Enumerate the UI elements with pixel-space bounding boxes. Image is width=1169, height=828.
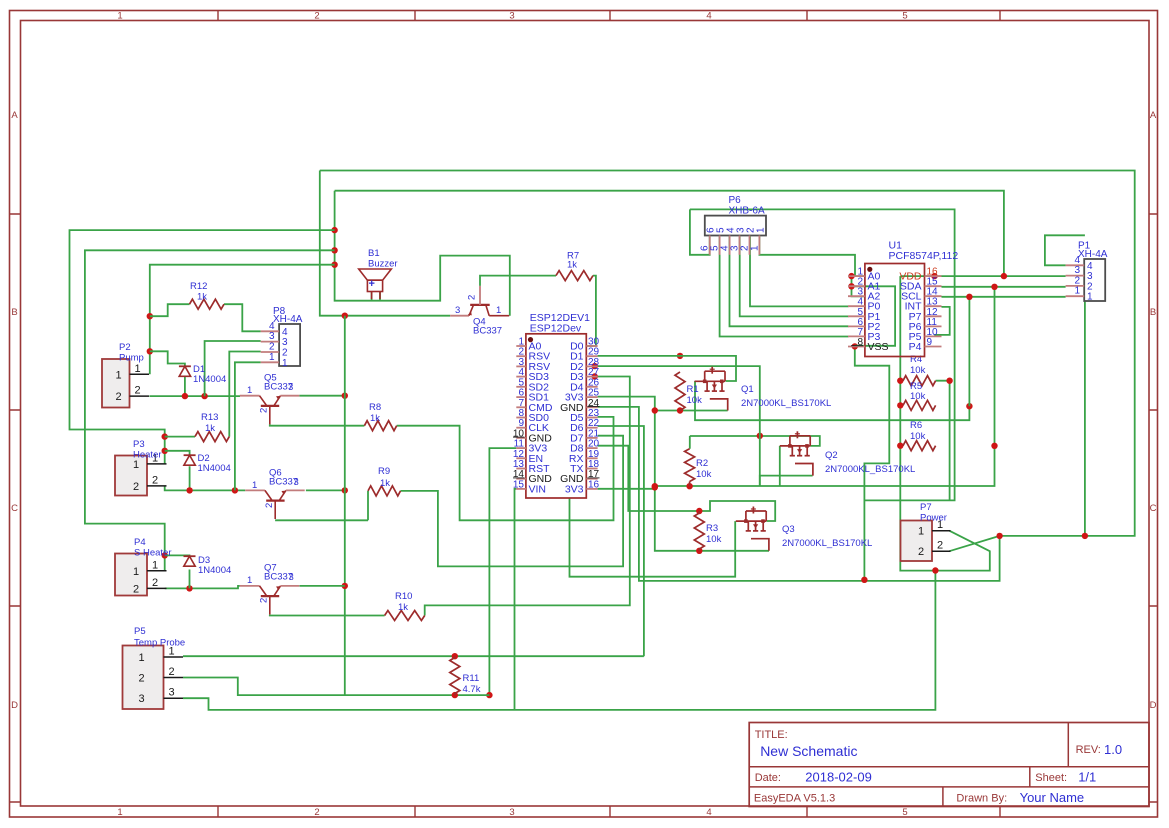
svg-text:10k: 10k bbox=[696, 469, 712, 480]
wire ESP pin29 D1 line bbox=[598, 356, 736, 381]
svg-text:5: 5 bbox=[902, 807, 907, 818]
svg-text:10k: 10k bbox=[687, 395, 703, 406]
svg-text:Your Name: Your Name bbox=[1020, 790, 1085, 805]
svg-text:Date:: Date: bbox=[755, 772, 781, 784]
svg-text:4: 4 bbox=[706, 807, 711, 818]
IC U1 PCF8574P,112 bbox=[848, 240, 958, 357]
svg-text:1N4004: 1N4004 bbox=[193, 374, 226, 385]
svg-text:Power: Power bbox=[920, 513, 947, 524]
svg-text:TITLE:: TITLE: bbox=[755, 729, 788, 741]
wire R12 net bbox=[150, 304, 261, 331]
svg-text:1: 1 bbox=[749, 245, 760, 251]
svg-text:Q1: Q1 bbox=[741, 384, 754, 395]
title block bbox=[749, 723, 1149, 807]
buzzer B1 bbox=[359, 248, 398, 299]
transistor Q7 BC337 bbox=[240, 563, 299, 615]
resistor R7 1k bbox=[556, 251, 593, 281]
svg-text:BC337: BC337 bbox=[264, 572, 293, 583]
svg-text:R11: R11 bbox=[463, 673, 480, 684]
transistor Q6 BC337 bbox=[245, 468, 305, 520]
svg-text:Drawn By:: Drawn By: bbox=[956, 793, 1007, 805]
svg-text:A: A bbox=[1150, 110, 1157, 121]
svg-text:P4: P4 bbox=[134, 537, 146, 548]
svg-text:2: 2 bbox=[937, 540, 943, 552]
svg-text:Q2: Q2 bbox=[825, 450, 838, 461]
svg-text:1N4004: 1N4004 bbox=[198, 565, 231, 576]
svg-text:2: 2 bbox=[138, 673, 144, 685]
wire D2 cathode hook bbox=[165, 451, 190, 491]
IC ESP12DEV1 ESP12Dev bbox=[513, 312, 600, 498]
svg-text:3: 3 bbox=[509, 11, 514, 22]
wire Q5 collector line bbox=[299, 393, 348, 399]
svg-text:R8: R8 bbox=[369, 402, 381, 413]
wire Q7 collector line bbox=[300, 585, 345, 587]
svg-text:P7: P7 bbox=[920, 502, 932, 513]
transistor Q4 BC337 bbox=[450, 286, 509, 337]
svg-text:Q3: Q3 bbox=[782, 524, 795, 535]
wire ESP pin25 3V3 net bbox=[598, 353, 995, 554]
svg-text:B: B bbox=[11, 307, 17, 318]
resistor R6 10k bbox=[903, 420, 936, 451]
wire R8 to ESP pin23 D5 bbox=[397, 417, 614, 520]
svg-text:R13: R13 bbox=[201, 412, 218, 423]
resistor R1 10k bbox=[675, 372, 702, 411]
svg-text:2: 2 bbox=[152, 577, 158, 589]
svg-text:3: 3 bbox=[509, 807, 514, 818]
svg-text:REV:: REV: bbox=[1076, 744, 1101, 756]
svg-text:1: 1 bbox=[1074, 286, 1080, 297]
svg-text:P2: P2 bbox=[119, 342, 131, 353]
svg-text:Buzzer: Buzzer bbox=[368, 259, 398, 270]
wire P8 pin1 drop bbox=[235, 362, 261, 490]
svg-text:D: D bbox=[1150, 700, 1157, 711]
svg-text:R2: R2 bbox=[696, 458, 708, 469]
wire D1 cathode hook bbox=[150, 351, 185, 396]
svg-text:2: 2 bbox=[314, 11, 319, 22]
svg-text:1: 1 bbox=[755, 227, 766, 233]
svg-text:1N4004: 1N4004 bbox=[198, 463, 231, 474]
svg-text:PCF8574P,112: PCF8574P,112 bbox=[889, 250, 959, 262]
wire P4 pin2 line bbox=[165, 585, 240, 591]
svg-text:1k: 1k bbox=[398, 602, 408, 613]
svg-text:2: 2 bbox=[259, 408, 270, 413]
wire ESP pin20 D8 to Q3 bbox=[598, 446, 776, 521]
wire buzzer legs bbox=[372, 292, 380, 301]
svg-text:1: 1 bbox=[252, 480, 257, 491]
svg-text:1: 1 bbox=[133, 566, 139, 578]
svg-text:2N7000KL_BS170KL: 2N7000KL_BS170KL bbox=[782, 538, 872, 549]
svg-text:P3: P3 bbox=[133, 439, 145, 450]
wire P5 pin2 to R11 bbox=[183, 678, 489, 699]
wire R4 branch bbox=[936, 378, 953, 501]
resistor R9 1k bbox=[368, 466, 401, 496]
svg-text:1.0: 1.0 bbox=[1104, 742, 1122, 757]
wire ESP pin15 VIN drop bbox=[515, 489, 517, 710]
svg-text:BC337: BC337 bbox=[269, 477, 298, 488]
svg-text:1: 1 bbox=[1087, 292, 1093, 303]
svg-text:R1: R1 bbox=[687, 384, 699, 395]
svg-text:2: 2 bbox=[133, 583, 139, 595]
svg-text:1: 1 bbox=[152, 559, 158, 571]
connector P7 Power bbox=[901, 502, 951, 561]
wire Q3 gate line bbox=[570, 498, 736, 577]
wire P2 pin2 line bbox=[149, 393, 240, 399]
wire U1 A1 to VSS jog bbox=[855, 286, 895, 346]
svg-text:2N7000KL_BS170KL: 2N7000KL_BS170KL bbox=[825, 464, 915, 475]
resistor R11 4.7k bbox=[450, 656, 481, 695]
svg-text:1: 1 bbox=[133, 459, 139, 471]
wire SCL line to P1 pin1 bbox=[942, 294, 1066, 300]
wire SDA line to P1 pin2 bbox=[942, 284, 1066, 449]
connector P6 XHB-6A bbox=[700, 195, 767, 255]
svg-text:10k: 10k bbox=[910, 431, 926, 442]
resistor R8 1k bbox=[364, 402, 396, 431]
mosfet Q3 2N7000KL_BS170KL bbox=[736, 507, 873, 551]
wire Q4 to R7 to ESP pin30 bbox=[480, 276, 596, 346]
svg-text:2: 2 bbox=[134, 385, 140, 397]
diode D1 1N4004 bbox=[179, 364, 226, 385]
connector P2 Pump bbox=[102, 342, 149, 408]
svg-text:B: B bbox=[1150, 307, 1156, 318]
svg-text:3: 3 bbox=[138, 693, 144, 705]
svg-text:Sheet:: Sheet: bbox=[1035, 772, 1067, 784]
svg-text:R10: R10 bbox=[395, 591, 412, 602]
resistor R5 10k bbox=[903, 381, 936, 410]
svg-text:2N7000KL_BS170KL: 2N7000KL_BS170KL bbox=[741, 398, 831, 409]
svg-text:1: 1 bbox=[115, 369, 121, 381]
svg-text:BC337: BC337 bbox=[473, 326, 502, 337]
svg-text:10k: 10k bbox=[910, 391, 926, 402]
mosfet Q2 2N7000KL_BS170KL bbox=[780, 431, 916, 475]
svg-text:1: 1 bbox=[134, 363, 140, 375]
wire Q5 emitter to R8 bbox=[270, 424, 365, 425]
resistor R13 1k bbox=[195, 412, 229, 442]
wire Q1 gate to R5 line bbox=[695, 381, 973, 420]
svg-text:XHB-6A: XHB-6A bbox=[729, 206, 765, 217]
wire U1 VSS hook bbox=[852, 343, 890, 583]
svg-text:P6: P6 bbox=[729, 195, 742, 206]
diode D2 1N4004 bbox=[184, 453, 231, 474]
wire ESP pin11 3V3 drop bbox=[486, 448, 516, 698]
svg-text:C: C bbox=[1150, 503, 1157, 514]
resistor R10 1k bbox=[385, 591, 425, 621]
transistor Q5 BC337 bbox=[240, 373, 299, 425]
svg-text:P5: P5 bbox=[134, 626, 146, 637]
wire Q6 collector to node bbox=[306, 487, 348, 493]
svg-text:2: 2 bbox=[152, 474, 158, 486]
svg-text:R6: R6 bbox=[910, 420, 922, 431]
resistor R4 10k bbox=[903, 354, 936, 386]
svg-text:VIN: VIN bbox=[529, 483, 547, 495]
connector P1 XH-4A bbox=[1066, 241, 1108, 303]
wire P8 pin3 drop bbox=[205, 341, 261, 396]
svg-text:XH-4A: XH-4A bbox=[273, 314, 303, 325]
wire net-A top rail to P7 pin2 bbox=[320, 171, 1135, 581]
svg-text:9: 9 bbox=[927, 337, 933, 348]
svg-text:2: 2 bbox=[314, 807, 319, 818]
svg-text:15: 15 bbox=[513, 479, 525, 490]
svg-text:5: 5 bbox=[902, 11, 907, 22]
svg-text:+: + bbox=[369, 278, 375, 290]
node ESP pin27 bbox=[592, 373, 598, 379]
svg-text:Temp Probe: Temp Probe bbox=[134, 638, 185, 649]
wire P6 pin5 to U1 P3 bbox=[720, 236, 849, 336]
svg-text:1: 1 bbox=[247, 385, 252, 396]
connector P5 Temp Probe bbox=[123, 626, 186, 709]
wire P3 pin2 line bbox=[165, 486, 246, 494]
resistor R12 1k bbox=[190, 281, 225, 309]
wire left feeder 2 to P4 bbox=[85, 250, 335, 571]
wire D3 cathode hook bbox=[165, 555, 190, 588]
svg-text:1k: 1k bbox=[205, 423, 215, 434]
svg-text:3V3: 3V3 bbox=[565, 483, 584, 495]
svg-text:1: 1 bbox=[269, 352, 275, 363]
wire left feeder 3 to P2 bbox=[147, 265, 335, 375]
svg-text:2: 2 bbox=[467, 295, 478, 300]
wire P1 pin4 hook bbox=[1045, 235, 1085, 265]
wire net-VDD rail bbox=[331, 191, 1065, 571]
wire P8 pin2 to R13 bbox=[165, 352, 261, 437]
wire center column bbox=[342, 316, 348, 695]
wire P5 pin3 bottom bus bbox=[183, 567, 939, 710]
connector P3 Heater bbox=[115, 439, 167, 496]
svg-text:3: 3 bbox=[269, 331, 275, 342]
resistor R2 10k bbox=[685, 449, 712, 487]
svg-text:2: 2 bbox=[918, 546, 924, 558]
svg-text:1k: 1k bbox=[197, 292, 207, 303]
svg-text:R4: R4 bbox=[910, 354, 922, 365]
svg-text:Pump: Pump bbox=[119, 353, 144, 364]
svg-text:D: D bbox=[11, 700, 18, 711]
svg-text:4.7k: 4.7k bbox=[463, 684, 481, 695]
svg-text:1k: 1k bbox=[370, 413, 380, 424]
wire P6 pin6 rail bbox=[690, 209, 955, 500]
svg-text:2: 2 bbox=[264, 503, 275, 508]
wire ESP pin28 D2 line bbox=[592, 363, 760, 486]
wire P6 pin2 to U1 P0 bbox=[750, 236, 849, 306]
svg-text:P4: P4 bbox=[909, 341, 922, 353]
svg-text:1: 1 bbox=[496, 305, 501, 316]
svg-text:New Schematic: New Schematic bbox=[760, 743, 857, 759]
svg-text:ESP12Dev: ESP12Dev bbox=[530, 323, 582, 335]
wire left feeder 1 to P3 bbox=[70, 230, 335, 464]
wire Q6 emitter to R9 bbox=[275, 491, 368, 520]
svg-text:1: 1 bbox=[117, 807, 122, 818]
mosfet Q1 2N7000KL_BS170KL bbox=[695, 367, 832, 411]
svg-text:XH-4A: XH-4A bbox=[1078, 249, 1108, 260]
svg-text:1: 1 bbox=[138, 652, 144, 664]
wire Q4 base line bbox=[320, 171, 450, 319]
connector P8 XH-4A bbox=[261, 306, 303, 369]
connector P4 S Heater bbox=[115, 537, 172, 596]
diode D3 1N4004 bbox=[184, 555, 232, 576]
svg-text:R3: R3 bbox=[706, 523, 718, 534]
svg-text:2: 2 bbox=[115, 391, 121, 403]
svg-text:VSS: VSS bbox=[868, 341, 889, 353]
wire U1 INT to P5 loop bbox=[934, 307, 950, 335]
wire SCL to R5 vertical bbox=[968, 297, 970, 406]
svg-text:A: A bbox=[11, 110, 18, 121]
svg-text:4: 4 bbox=[706, 11, 711, 22]
svg-text:3: 3 bbox=[168, 687, 174, 699]
resistor R3 10k bbox=[694, 511, 721, 551]
wire R9 to ESP pin21 D7 bbox=[401, 436, 624, 567]
svg-text:B1: B1 bbox=[368, 248, 380, 259]
wire P6 pin3 to U1 P1 bbox=[740, 236, 849, 316]
wire P6 pin1 to U1 A0 bbox=[759, 236, 865, 296]
svg-text:1k: 1k bbox=[380, 478, 390, 489]
svg-text:Heater: Heater bbox=[133, 450, 162, 461]
svg-text:C: C bbox=[11, 503, 18, 514]
svg-text:BC337: BC337 bbox=[264, 382, 293, 393]
svg-text:R12: R12 bbox=[190, 281, 207, 292]
svg-text:1k: 1k bbox=[567, 260, 577, 271]
wire ESP pin16 3V3 bbox=[598, 484, 658, 490]
svg-text:2: 2 bbox=[168, 666, 174, 678]
svg-text:1: 1 bbox=[117, 11, 122, 22]
svg-text:EasyEDA V5.1.3: EasyEDA V5.1.3 bbox=[754, 793, 835, 805]
svg-text:2018-02-09: 2018-02-09 bbox=[805, 770, 872, 785]
svg-text:2: 2 bbox=[133, 481, 139, 493]
svg-text:16: 16 bbox=[588, 479, 600, 490]
svg-text:10k: 10k bbox=[706, 534, 722, 545]
svg-text:8: 8 bbox=[857, 337, 863, 348]
svg-text:3: 3 bbox=[282, 337, 288, 348]
svg-text:1: 1 bbox=[918, 526, 924, 538]
wire Q7 emitter R10 to ESP pin27 D3 bbox=[270, 377, 630, 616]
wire ESP pin22 D6 to P5 pin1 R11 bbox=[183, 426, 644, 659]
svg-text:1: 1 bbox=[282, 358, 288, 369]
svg-text:10k: 10k bbox=[910, 365, 926, 376]
svg-text:2: 2 bbox=[259, 598, 270, 603]
svg-text:1/1: 1/1 bbox=[1078, 770, 1096, 785]
svg-text:S Heater: S Heater bbox=[134, 548, 172, 559]
wire P6 pin4 to U1 P2 bbox=[730, 236, 849, 326]
svg-text:R9: R9 bbox=[378, 466, 390, 477]
svg-text:3: 3 bbox=[455, 305, 460, 316]
svg-text:1: 1 bbox=[247, 575, 252, 586]
